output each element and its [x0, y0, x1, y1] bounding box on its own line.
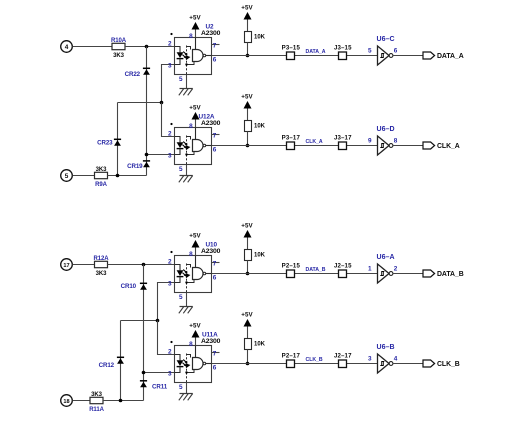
svg-text:+5V: +5V — [241, 94, 253, 101]
svg-text:CLK_A: CLK_A — [437, 143, 460, 150]
svg-text:2: 2 — [168, 41, 172, 48]
wire input5 to R9A — [73, 175, 95, 177]
svg-text:U6–B: U6–B — [377, 344, 395, 351]
svg-text:3K3: 3K3 — [96, 271, 107, 277]
connector pin J3–17 — [334, 135, 352, 150]
wire CR10/CR11 column — [143, 265, 145, 401]
svg-text:R11A: R11A — [89, 407, 104, 413]
svg-text:5: 5 — [179, 384, 183, 391]
svg-text:3: 3 — [168, 281, 172, 288]
resistor R12A 3K3 — [94, 256, 110, 277]
svg-text:2: 2 — [168, 349, 172, 356]
svg-text:7: 7 — [213, 133, 217, 140]
U11A pin labels — [168, 341, 217, 391]
U12A pin labels — [168, 123, 217, 173]
svg-text:+5V: +5V — [189, 323, 201, 330]
resistor R9A 3K3 — [95, 167, 108, 188]
wire DATA_A output row — [212, 55, 378, 57]
U6–B pin numbers — [368, 355, 398, 362]
svg-text:R10A: R10A — [111, 38, 127, 44]
ground for U11A pin 5 — [179, 383, 193, 401]
output port CLK_A — [423, 142, 460, 150]
wire mid horizontal B — [121, 320, 158, 322]
svg-text:+5V: +5V — [241, 223, 253, 230]
svg-text:10K: 10K — [254, 252, 266, 258]
svg-text:4: 4 — [65, 44, 69, 51]
junction node B mid — [156, 319, 160, 323]
junction R9A / CR23 — [116, 174, 120, 178]
svg-text:6: 6 — [213, 147, 217, 154]
resistor 10K pullup — [245, 121, 266, 132]
svg-text:8: 8 — [189, 33, 193, 40]
svg-text:+5V: +5V — [241, 5, 253, 12]
svg-text:DATA_B: DATA_B — [437, 271, 464, 278]
U10 pin 7 stub — [212, 262, 220, 264]
connector pin P3–15 — [282, 45, 301, 60]
inverter U6–C — [377, 36, 395, 65]
svg-text:+5V: +5V — [241, 312, 253, 319]
svg-text:CR23: CR23 — [97, 140, 113, 147]
wire input18 to R11A — [73, 400, 91, 402]
diode CR23 — [114, 139, 121, 145]
svg-text:6: 6 — [213, 57, 217, 64]
+5V supply for U12A — [189, 105, 201, 128]
optocoupler U12A A2300 — [170, 123, 211, 165]
U2 pin labels — [168, 33, 217, 83]
U12A pin 7 stub — [212, 134, 220, 136]
junction pullup/output — [246, 54, 250, 58]
svg-text:R12A: R12A — [94, 256, 110, 262]
svg-text:8: 8 — [189, 123, 193, 130]
junction R11A / CR12 — [119, 399, 123, 403]
connector pin P2–17 — [282, 353, 301, 368]
wire CLK_A output row — [212, 145, 378, 147]
svg-text:CR19: CR19 — [127, 163, 143, 170]
diode CR11 — [140, 381, 147, 387]
svg-text:3: 3 — [168, 63, 172, 70]
svg-text:P2–15: P2–15 — [282, 263, 301, 270]
svg-text:2: 2 — [168, 259, 172, 266]
wire U10 pin3 down — [158, 283, 175, 321]
svg-text:+5V: +5V — [189, 233, 201, 240]
wire CR22/CR19 column — [146, 47, 148, 176]
+5V supply for pullup — [241, 5, 253, 32]
junction pullup/output — [246, 272, 250, 276]
ground for U10 pin 5 — [179, 293, 193, 314]
connector pin P3–17 — [282, 135, 301, 150]
svg-text:6: 6 — [213, 275, 217, 282]
svg-text:18: 18 — [63, 399, 69, 405]
wire R11A to CR11 column — [103, 400, 144, 402]
svg-text:A2300: A2300 — [201, 248, 221, 255]
svg-text:CR12: CR12 — [99, 362, 115, 369]
svg-text:3: 3 — [368, 355, 372, 362]
svg-text:P3–17: P3–17 — [282, 135, 301, 142]
resistor 10K pullup — [245, 339, 266, 350]
junction U12A pin3 / CR column — [145, 153, 149, 157]
wire pullup to output — [247, 350, 249, 364]
wire CR12 column — [120, 321, 122, 401]
connector pin J3–15 — [334, 45, 352, 60]
svg-text:+5V: +5V — [189, 105, 201, 112]
svg-text:7: 7 — [213, 261, 217, 268]
svg-text:CR11: CR11 — [152, 384, 168, 391]
wire inverter to port CLK_A — [393, 145, 423, 147]
wire pullup to output — [247, 43, 249, 56]
+5V supply for pullup — [241, 312, 253, 339]
svg-text:6: 6 — [394, 47, 398, 54]
U6–A pin numbers — [368, 265, 398, 272]
U11A pin 7 stub — [212, 352, 220, 354]
junction node after R10A — [145, 45, 149, 49]
svg-text:7: 7 — [213, 351, 217, 358]
svg-text:3K3: 3K3 — [96, 167, 107, 173]
svg-text:DATA_B: DATA_B — [306, 267, 326, 273]
svg-text:A2300: A2300 — [201, 338, 221, 345]
wire U11A pin3 — [144, 372, 175, 374]
wire R9A to CR19 column — [108, 175, 147, 177]
svg-text:CLK_B: CLK_B — [306, 357, 323, 363]
svg-text:8: 8 — [394, 137, 398, 144]
wire to U12A pin2 — [162, 103, 175, 137]
svg-text:3K3: 3K3 — [91, 392, 102, 398]
wire U12A pin3 — [147, 154, 175, 156]
svg-text:5: 5 — [179, 76, 183, 83]
wire pullup to output — [247, 132, 249, 146]
connector pin J2–17 — [334, 353, 352, 368]
svg-text:P2–17: P2–17 — [282, 353, 301, 360]
+5V supply for pullup — [241, 223, 253, 250]
optocoupler U11A A2300 — [170, 341, 211, 383]
inverter U6–D — [377, 126, 395, 155]
input port 18 — [61, 395, 73, 407]
wire DATA_B output row — [212, 273, 378, 275]
junction node after R12A — [142, 263, 146, 267]
wire inverter to port DATA_A — [393, 55, 423, 57]
U6–C pin numbers — [368, 47, 398, 54]
svg-text:3K3: 3K3 — [113, 53, 124, 59]
svg-text:R9A: R9A — [95, 182, 107, 188]
svg-text:5: 5 — [179, 294, 183, 301]
diode CR22 — [143, 68, 150, 74]
resistor R11A 3K3 — [89, 392, 104, 413]
svg-text:5: 5 — [368, 47, 372, 54]
wire mid horizontal A — [118, 102, 162, 104]
wire CLK_B output row — [212, 363, 378, 365]
svg-text:J2–15: J2–15 — [334, 263, 352, 270]
wire input17 to R12A — [73, 264, 95, 266]
output port DATA_B — [423, 270, 464, 278]
wire R12A to U10 pin2 — [108, 264, 175, 266]
svg-text:10K: 10K — [254, 34, 266, 40]
ground for U12A pin 5 — [179, 165, 193, 183]
svg-text:4: 4 — [394, 355, 398, 362]
output port CLK_B — [423, 360, 460, 368]
wire inverter to port DATA_B — [393, 273, 423, 275]
U10 pin labels — [168, 251, 217, 301]
U2 pin 7 stub — [212, 44, 220, 46]
svg-text:CR10: CR10 — [121, 283, 137, 290]
svg-text:3: 3 — [168, 371, 172, 378]
wire to U11A pin2 — [158, 321, 175, 355]
svg-text:6: 6 — [213, 365, 217, 372]
optocoupler U10 A2300 — [170, 251, 211, 293]
+5V supply for U2 — [189, 15, 201, 38]
svg-text:5: 5 — [65, 173, 69, 180]
+5V supply for U10 — [189, 233, 201, 256]
svg-text:17: 17 — [63, 263, 69, 269]
ground for U2 pin 5 — [179, 75, 193, 96]
svg-text:J3–15: J3–15 — [334, 45, 352, 52]
junction pullup/output — [246, 362, 250, 366]
diode CR19 — [143, 161, 150, 167]
junction node A mid — [160, 101, 164, 105]
svg-text:J3–17: J3–17 — [334, 135, 352, 142]
svg-text:10K: 10K — [254, 341, 266, 347]
inverter U6–B — [377, 344, 395, 373]
svg-text:+5V: +5V — [189, 15, 201, 22]
svg-text:3: 3 — [168, 153, 172, 160]
svg-text:10K: 10K — [254, 123, 266, 129]
connector pin P2–15 — [282, 263, 301, 278]
wire U2 pin3 down — [162, 65, 175, 103]
svg-text:CLK_A: CLK_A — [306, 139, 323, 145]
svg-text:J2–17: J2–17 — [334, 353, 352, 360]
junction pullup/output — [246, 144, 250, 148]
+5V supply for U11A — [189, 323, 201, 346]
diode CR12 — [117, 357, 124, 363]
svg-text:U6–D: U6–D — [377, 126, 395, 133]
+5V supply for pullup — [241, 94, 253, 121]
svg-text:P3–15: P3–15 — [282, 45, 301, 52]
svg-text:DATA_A: DATA_A — [306, 49, 326, 55]
diode CR10 — [140, 283, 147, 289]
wire pullup to output — [247, 261, 249, 274]
svg-text:5: 5 — [179, 166, 183, 173]
svg-text:8: 8 — [189, 341, 193, 348]
svg-text:U6–A: U6–A — [377, 254, 395, 261]
U6–D pin numbers — [368, 137, 398, 144]
svg-text:2: 2 — [168, 131, 172, 138]
input port 17 — [61, 259, 73, 271]
optocoupler U2 A2300 — [170, 33, 211, 75]
output port DATA_A — [423, 52, 464, 60]
svg-text:1: 1 — [368, 265, 372, 272]
svg-text:U6–C: U6–C — [377, 36, 395, 43]
wire R10A to U2 pin2 — [125, 46, 175, 48]
svg-text:8: 8 — [189, 251, 193, 258]
wire CR23 column — [117, 103, 119, 176]
resistor 10K pullup — [245, 32, 266, 43]
svg-text:DATA_A: DATA_A — [437, 53, 464, 60]
resistor R10A 3K3 — [111, 38, 127, 59]
svg-text:2: 2 — [394, 265, 398, 272]
inverter U6–A — [377, 254, 395, 283]
svg-text:CLK_B: CLK_B — [437, 361, 460, 368]
svg-text:CR22: CR22 — [125, 71, 141, 78]
wire inverter to port CLK_B — [393, 363, 423, 365]
input port 4 — [61, 41, 73, 53]
junction U11A pin3 / CR column — [142, 371, 146, 375]
resistor 10K pullup — [245, 250, 266, 261]
svg-text:7: 7 — [213, 43, 217, 50]
svg-text:9: 9 — [368, 137, 372, 144]
connector pin J2–15 — [334, 263, 352, 278]
svg-text:A2300: A2300 — [201, 30, 221, 37]
wire input4 to R10A — [73, 46, 113, 48]
svg-text:A2300: A2300 — [201, 120, 221, 127]
input port 5 — [61, 170, 73, 182]
